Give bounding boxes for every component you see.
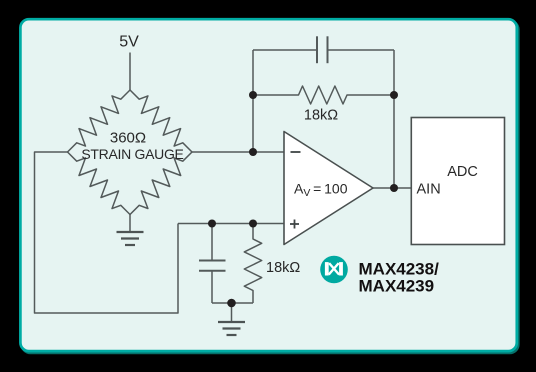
wire ground junction stem (231, 303, 233, 322)
ground (RC filter) (218, 322, 245, 335)
capacitor C2 top lead (211, 224, 213, 261)
node resistor R2 top (249, 220, 257, 228)
resistor bridge top-right arm (130, 90, 192, 152)
capacitor C2 bottom lead (211, 271, 213, 303)
svg-text:5V: 5V (119, 34, 139, 51)
node op-amp output (390, 184, 398, 192)
wire 5V supply lead (129, 53, 131, 91)
label MAX4238/MAX4239 (359, 260, 440, 296)
resistor R2 18k (244, 224, 261, 304)
wire RC node to op-amp + input (178, 223, 284, 225)
node feedback left (249, 91, 257, 99)
node capacitor C2 top (208, 220, 216, 228)
wire bridge right vertex to op-amp - input (192, 151, 284, 153)
node feedback right (390, 91, 398, 99)
ADC block (411, 118, 504, 245)
svg-text:18kΩ: 18kΩ (266, 260, 300, 276)
resistor bridge bottom-left arm (68, 152, 131, 215)
Maxim logo (320, 256, 348, 284)
wire feedback top right segment (328, 49, 395, 51)
wire RC bottom to ground junction (212, 302, 253, 304)
wire output vertical to feedback (393, 50, 395, 188)
op-amp U1 (284, 132, 373, 245)
resistor bridge top-left arm (68, 90, 131, 152)
capacitor C1 feedback plates (317, 36, 328, 63)
capacitor C2 plates (199, 261, 226, 271)
svg-text:MAX4239: MAX4239 (359, 277, 435, 296)
wire feedback top left segment (253, 49, 317, 51)
svg-text:STRAIN GAUGE: STRAIN GAUGE (81, 146, 183, 162)
svg-text:AV = 100: AV = 100 (294, 181, 348, 200)
node op-amp minus input (249, 148, 257, 156)
svg-text:AIN: AIN (417, 182, 441, 198)
svg-text:ADC: ADC (447, 164, 478, 180)
svg-text:360Ω: 360Ω (110, 130, 146, 147)
ground (bridge) (117, 232, 144, 245)
wire bridge left vertex loop to RC node (35, 152, 179, 313)
resistor R1 18k feedback (253, 86, 394, 104)
svg-text:18kΩ: 18kΩ (304, 108, 338, 124)
resistor bridge bottom-right arm (130, 152, 192, 215)
wire feedback left vertical (252, 50, 254, 152)
node ground junction (227, 299, 236, 308)
wire op-amp output to ADC AIN (373, 187, 411, 189)
wire bridge bottom vertex to ground (129, 215, 131, 233)
